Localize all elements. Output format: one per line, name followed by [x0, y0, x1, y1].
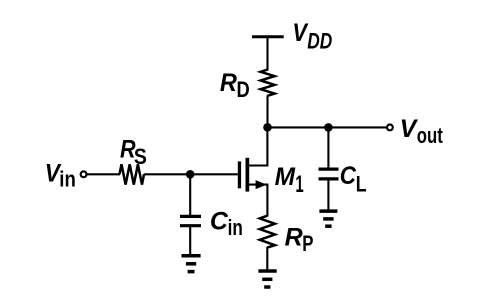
wire output node to CL top plate: [327, 127, 329, 169]
svg-text:M: M: [275, 163, 297, 191]
svg-text:C: C: [210, 207, 229, 235]
svg-text:in: in: [59, 166, 76, 191]
ground below Cin: [182, 256, 201, 272]
gate bar: [238, 161, 241, 188]
label M1: [275, 163, 304, 198]
node output junction (CL tap): [324, 123, 333, 132]
svg-text:out: out: [417, 123, 444, 148]
svg-text:C: C: [340, 162, 357, 190]
ground below CL: [319, 211, 337, 226]
wire Vin terminal to RS: [87, 173, 120, 175]
svg-text:DD: DD: [307, 28, 332, 53]
capacitor Cin: [180, 216, 201, 225]
svg-text:L: L: [356, 172, 367, 197]
transistor M1 (NMOS): [238, 127, 268, 217]
label CL: [340, 162, 367, 197]
node drain junction: [263, 123, 272, 132]
terminal Vout open circle: [387, 125, 393, 131]
wire CL bottom plate to ground: [327, 179, 329, 210]
resistor RP: [260, 216, 275, 248]
svg-text:in: in: [228, 215, 243, 240]
wire RP to ground: [266, 247, 268, 270]
svg-text:R: R: [285, 224, 303, 252]
wire RD to drain node: [266, 95, 268, 128]
capacitor CL: [319, 169, 339, 179]
wire Cin bottom plate to ground: [189, 226, 191, 255]
source arrow: [256, 180, 267, 189]
power VDD supply bar: [252, 35, 284, 38]
label RS: [120, 136, 147, 170]
wire RS to gate (through Cin node): [144, 173, 238, 175]
label RD: [220, 69, 250, 102]
svg-text:S: S: [134, 144, 147, 169]
resistor RS: [120, 164, 145, 184]
label VDD: [292, 19, 332, 54]
node gate junction (Cin tap): [186, 170, 195, 179]
label RP: [285, 224, 314, 257]
label Vout: [400, 115, 444, 148]
drain tap wire: [249, 127, 268, 166]
ground below RP: [258, 271, 276, 287]
source tap wire: [249, 185, 268, 217]
svg-text:R: R: [220, 69, 237, 97]
channel bar: [246, 158, 250, 192]
wire VDD bar to RD: [266, 37, 268, 71]
svg-text:V: V: [400, 115, 419, 143]
terminal Vin open circle: [81, 171, 87, 177]
svg-text:D: D: [237, 77, 250, 102]
resistor RD: [261, 70, 275, 96]
label Vin: [45, 159, 76, 191]
wire node to Cin top plate: [189, 174, 191, 216]
svg-text:P: P: [302, 231, 313, 256]
svg-text:1: 1: [295, 171, 303, 198]
wire drain node to Vout terminal: [268, 126, 387, 128]
label Cin: [210, 207, 243, 240]
